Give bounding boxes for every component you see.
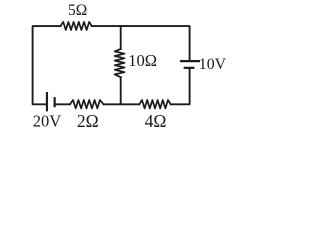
svg-text:20V: 20V [33,111,62,129]
svg-text:2Ω: 2Ω [77,111,99,129]
wire: top segment from R1 to top-right corner, down to 10V battery [92,26,190,60]
svg-text:10Ω: 10Ω [128,51,157,70]
wire: right side below 10V battery to bottom-right corner, left to R3 [171,69,190,104]
resistor R4 10ohm zigzag (middle branch, vertical) [115,49,125,77]
wire: from 20V battery short plate to R2 [56,103,70,105]
wire: middle branch upper lead (top wire down to R4) [120,26,122,49]
resistor R1 5ohm zigzag (top wire) [61,22,92,30]
battery V2 10V short plate [184,67,195,69]
battery V1 20V long plate [46,92,48,111]
wire: bottom between R2 and R3 [104,103,140,105]
resistor R3 4ohm zigzag (bottom wire right) [139,100,170,108]
battery V2 10V long plate [180,60,200,62]
battery V1 20V short plate [54,97,56,107]
svg-text:10V: 10V [199,56,227,73]
svg-text:5Ω: 5Ω [68,2,87,19]
wire: top-left + left side + bottom-left segment into 20V battery [33,26,61,104]
wire: middle branch lower lead (R4 down to bottom wire) [120,77,122,104]
resistor R2 2ohm zigzag (bottom wire left) [70,100,104,108]
svg-text:4Ω: 4Ω [145,111,167,129]
